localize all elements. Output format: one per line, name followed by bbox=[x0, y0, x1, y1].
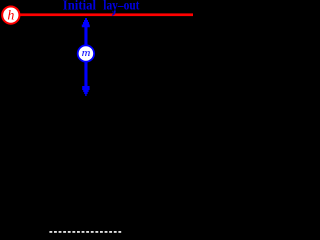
wire: up arrow shaft bbox=[84, 27, 87, 46]
node h (circle with label) bbox=[2, 6, 19, 23]
svg-text:h: h bbox=[7, 9, 14, 24]
node m (mass circle with label) bbox=[78, 45, 94, 61]
dashed reference line bbox=[49, 231, 121, 233]
y descender tail over line bbox=[112, 11, 115, 15]
up arrowhead bbox=[82, 18, 90, 27]
wire: down arrow shaft bbox=[84, 62, 87, 88]
svg-text:Initial: Initial bbox=[63, 0, 96, 13]
down arrowhead bbox=[82, 86, 89, 96]
svg-text:m: m bbox=[82, 47, 91, 59]
ceiling line (red) bbox=[20, 13, 194, 16]
svg-text:lay–out: lay–out bbox=[103, 0, 139, 13]
